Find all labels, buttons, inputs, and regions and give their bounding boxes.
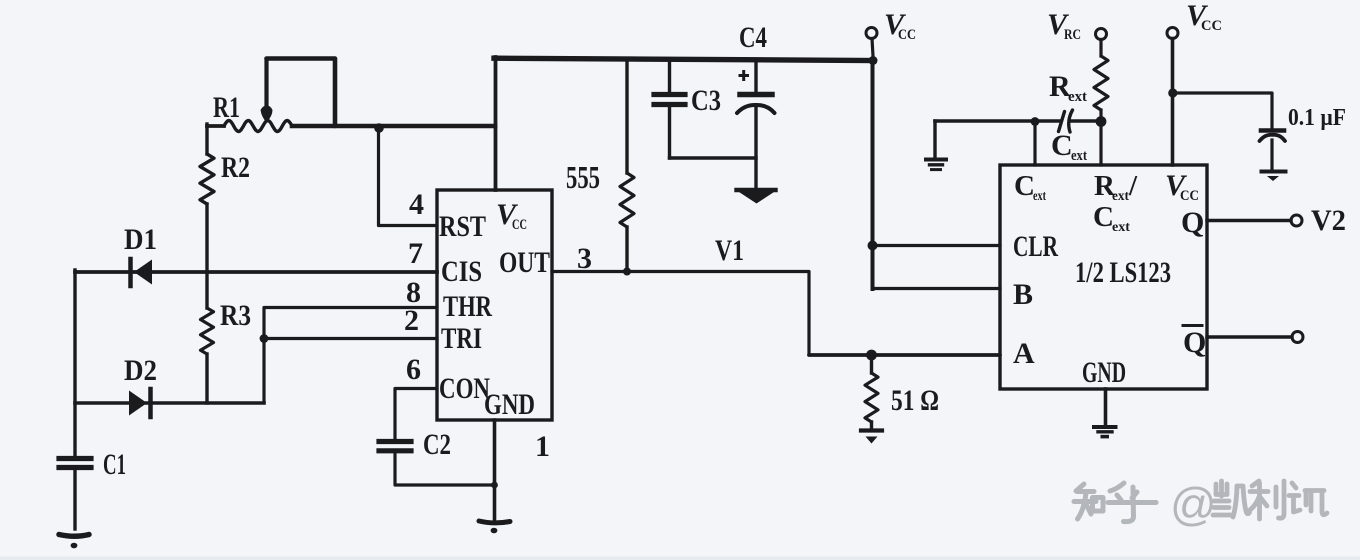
svg-text:ext: ext <box>1071 148 1087 164</box>
wire CON stub <box>395 389 437 442</box>
svg-text:51 Ω: 51 Ω <box>891 384 939 417</box>
svg-text:0.1 µF: 0.1 µF <box>1288 105 1346 131</box>
svg-text:C: C <box>1051 129 1073 162</box>
label GND 555 <box>484 388 535 421</box>
label Cext pin <box>1014 170 1046 204</box>
svg-text:CC: CC <box>1180 188 1199 204</box>
label C2 <box>423 428 451 461</box>
wire Vcc bus vertical <box>871 61 875 290</box>
label CON <box>439 372 490 405</box>
label pin3 <box>577 242 592 275</box>
terminal VRC <box>1096 29 1107 40</box>
diode D1 <box>131 259 153 286</box>
svg-text:Q: Q <box>1183 326 1206 359</box>
label R3 <box>220 299 251 332</box>
svg-text:CON: CON <box>439 372 490 405</box>
svg-text:@: @ <box>1170 478 1217 530</box>
wire Vcc terminal stub <box>872 39 873 57</box>
label R1 <box>213 91 240 124</box>
label 0.1uF <box>1288 105 1346 131</box>
label pin6 <box>406 353 421 386</box>
svg-text:C4: C4 <box>739 21 767 54</box>
watermark zhihu <box>1074 478 1327 530</box>
resistor R1 potentiometer <box>224 121 292 132</box>
node A junction <box>866 350 877 361</box>
resistor Rext <box>1094 40 1108 122</box>
svg-text:TRI: TRI <box>441 322 482 355</box>
wire Vcc right vertical <box>1171 39 1175 166</box>
label Rext <box>1049 70 1087 105</box>
svg-text:CC: CC <box>512 217 527 233</box>
svg-text:C: C <box>1014 170 1035 202</box>
label GND LS123 <box>1082 356 1126 389</box>
label pin1 <box>535 430 550 463</box>
svg-text:CC: CC <box>1201 18 1222 34</box>
label Cext <box>1051 129 1087 164</box>
svg-text:ext: ext <box>1068 89 1087 105</box>
IC 1/2 LS123 box <box>1000 165 1207 389</box>
svg-text:GND: GND <box>1082 356 1126 389</box>
svg-text:Q: Q <box>1181 206 1204 239</box>
wire R2 top stub <box>205 124 208 154</box>
svg-text:D1: D1 <box>124 223 157 256</box>
ground earth left <box>926 160 946 170</box>
label TRI <box>441 322 482 355</box>
svg-text:C: C <box>1093 201 1114 233</box>
wire B stub <box>873 287 1001 290</box>
svg-text:1/2 LS123: 1/2 LS123 <box>1075 256 1171 289</box>
label D2 <box>124 354 157 387</box>
svg-text:A: A <box>1013 337 1035 370</box>
capacitor C4 <box>737 60 775 190</box>
svg-text:R1: R1 <box>213 91 240 124</box>
svg-text:OUT: OUT <box>499 246 550 279</box>
capacitor C2 <box>379 442 411 451</box>
label B <box>1013 278 1033 311</box>
label pin8 <box>406 276 421 309</box>
wire left vertical bus <box>73 270 76 457</box>
svg-text:CC: CC <box>898 27 916 43</box>
node rail end <box>869 56 878 65</box>
wire R1 right segment <box>292 124 495 129</box>
svg-text:RC: RC <box>1064 27 1081 43</box>
svg-text:ext: ext <box>1112 220 1130 235</box>
label R2 <box>221 151 250 184</box>
wire Qbar stub <box>1207 335 1292 338</box>
label C3 <box>691 84 721 117</box>
label Vcc mid <box>884 8 916 43</box>
wire TRI stub <box>264 337 437 340</box>
svg-text:THR: THR <box>443 290 492 323</box>
terminal Vcc mid <box>866 28 877 39</box>
ground below C1 <box>59 535 89 549</box>
svg-text:B: B <box>1013 278 1033 311</box>
label CIS <box>441 255 482 288</box>
wire 555 GND pin <box>493 420 497 519</box>
wire D2 line <box>75 401 264 405</box>
node RST branch <box>374 123 384 133</box>
resistor 51 ohm <box>865 355 878 429</box>
label RST <box>439 210 486 243</box>
diode D2 <box>129 389 151 417</box>
label C1 <box>103 448 126 481</box>
wire wiper loop <box>267 59 336 127</box>
ground below LS123 <box>1094 427 1116 438</box>
label THR <box>443 290 492 323</box>
svg-text:CLR: CLR <box>1013 230 1058 263</box>
ground below 555 <box>479 521 510 533</box>
label Q <box>1181 206 1204 239</box>
wire CLR stub <box>873 244 1001 247</box>
node bypass junction <box>1168 88 1177 97</box>
label C4 <box>739 21 767 54</box>
svg-text:C2: C2 <box>423 428 451 461</box>
svg-text:4: 4 <box>409 188 424 221</box>
timer 555 box U1 <box>437 190 552 420</box>
svg-text:555: 555 <box>566 159 600 195</box>
ground below 51 ohm <box>861 431 882 444</box>
ground below bypass <box>1262 172 1286 182</box>
capacitor Cext <box>1059 110 1073 132</box>
svg-text:2: 2 <box>404 304 419 337</box>
wire Cext left segment <box>935 119 1059 123</box>
label pin2 <box>404 304 419 337</box>
label V2 <box>1311 204 1346 237</box>
terminal V2 <box>1291 215 1302 226</box>
node CLR junction <box>868 241 878 251</box>
wire CIS line <box>75 270 437 274</box>
wire Cext right segment <box>1071 119 1102 123</box>
label Vcc pin LS123 <box>1165 169 1199 204</box>
svg-text:/: / <box>1128 170 1138 202</box>
wire R3 bottom stub <box>205 354 208 403</box>
wire V1 line <box>627 272 1000 356</box>
node GND junction <box>491 482 498 489</box>
label RextCext pin <box>1093 170 1138 235</box>
svg-text:D2: D2 <box>124 354 157 387</box>
node OUT junction <box>623 268 631 276</box>
wire Vcc top rail <box>494 58 874 60</box>
wire R1 left stub <box>207 124 224 128</box>
svg-text:ext: ext <box>1033 189 1046 204</box>
wire 555 Vcc pin <box>494 57 498 190</box>
capacitor bypass 0.1uF <box>1260 131 1286 171</box>
wire RextCext pin <box>1099 121 1102 165</box>
svg-text:V1: V1 <box>715 234 744 267</box>
bottom edge strip <box>0 557 1360 560</box>
label VRC <box>1047 8 1081 43</box>
label Qbar <box>1183 326 1206 360</box>
wire OUT stub <box>552 270 627 273</box>
label Vcc right <box>1186 0 1222 34</box>
node Cext left <box>1031 117 1040 126</box>
terminal Qbar <box>1292 332 1303 343</box>
svg-text:CIS: CIS <box>441 255 482 288</box>
resistor pull-up <box>620 59 634 272</box>
label CLR <box>1013 230 1058 263</box>
wire C2 bottom <box>395 454 495 485</box>
svg-text:V2: V2 <box>1311 204 1346 237</box>
svg-text:1: 1 <box>535 430 550 463</box>
node Cext right <box>1096 116 1107 127</box>
wire LS123 GND pin <box>1104 389 1108 426</box>
wire Q stub <box>1207 219 1291 222</box>
label pin7 <box>408 237 423 270</box>
node TRI junction <box>260 334 269 343</box>
svg-text:C3: C3 <box>691 84 721 117</box>
terminal Vcc right <box>1167 28 1178 39</box>
resistor R3 <box>201 308 214 354</box>
label Vcc 555 <box>496 198 527 233</box>
wire THR branch <box>264 308 437 404</box>
capacitor C1 <box>59 459 91 530</box>
svg-text:RST: RST <box>439 210 486 243</box>
capacitor C3 <box>654 59 685 158</box>
wire Cext pin <box>1033 121 1036 165</box>
label 51 ohm <box>891 384 939 417</box>
resistor R2 <box>200 154 214 204</box>
svg-text:R2: R2 <box>221 151 250 184</box>
svg-text:7: 7 <box>408 237 423 270</box>
label 555 <box>566 159 600 195</box>
pot wiper arrow <box>261 60 273 123</box>
wire bypass horizontal <box>1173 93 1272 129</box>
label pin4 <box>409 188 424 221</box>
ground below C4 <box>737 190 776 204</box>
svg-text:R3: R3 <box>220 299 251 332</box>
label A <box>1013 337 1035 370</box>
wire R2-R3 middle <box>205 204 208 308</box>
wire earth branch <box>933 121 936 158</box>
wire RST branch <box>379 128 438 226</box>
svg-text:ext: ext <box>1112 189 1129 204</box>
label V1 <box>715 234 744 267</box>
svg-text:GND: GND <box>484 388 535 421</box>
label D1 <box>124 223 157 256</box>
svg-text:6: 6 <box>406 353 421 386</box>
wire C3-C4 bottom <box>670 156 757 159</box>
label half LS123 <box>1075 256 1171 289</box>
svg-text:C1: C1 <box>103 448 126 481</box>
label OUT <box>499 246 550 279</box>
